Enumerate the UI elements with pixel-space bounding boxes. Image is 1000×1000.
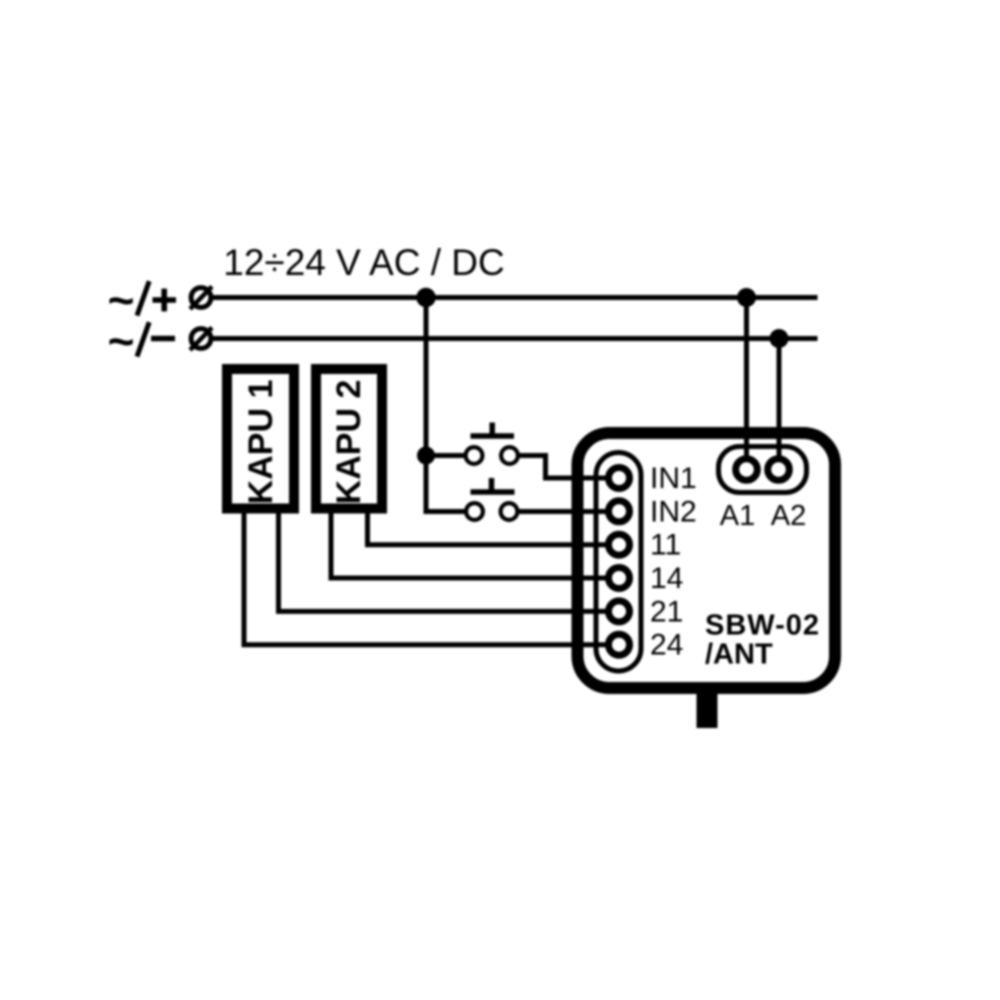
terminal IN1 xyxy=(609,468,630,489)
svg-text:A2: A2 xyxy=(771,500,806,532)
svg-text:~: ~ xyxy=(108,315,135,367)
wire A1 to plus line xyxy=(744,298,749,470)
terminal A2 xyxy=(768,459,790,481)
svg-text:IN2: IN2 xyxy=(650,495,697,528)
svg-text:KAPU 2: KAPU 2 xyxy=(330,380,368,505)
wire button1 right to IN1 xyxy=(520,456,613,479)
junction dot on plus line at buttons branch xyxy=(416,288,435,307)
terminal strip pill xyxy=(596,453,641,672)
wire supply line minus xyxy=(213,336,818,341)
pushbutton S1 xyxy=(466,423,518,464)
svg-text:11: 11 xyxy=(650,529,681,562)
terminal 21 xyxy=(609,601,630,622)
terminal symbol bottom (circle with slash) xyxy=(190,328,212,351)
junction dot on minus line at A2 branch xyxy=(770,329,789,348)
svg-text:24: 24 xyxy=(650,629,683,662)
junction dot at buttons branch split xyxy=(417,447,435,465)
wire KAPU1 right to terminal 21 xyxy=(279,513,613,611)
antenna stub xyxy=(697,688,718,728)
terminal IN2 xyxy=(609,501,630,522)
svg-text:SBW-02: SBW-02 xyxy=(705,610,820,642)
wire from plus line down to buttons xyxy=(426,298,465,512)
wire KAPU2 right to terminal 11 xyxy=(368,513,613,545)
wire supply line plus xyxy=(213,295,818,300)
KAPU 1 box xyxy=(227,369,294,509)
terminal A1 xyxy=(736,459,758,481)
label ~/− xyxy=(108,315,175,367)
svg-text:21: 21 xyxy=(650,595,683,628)
wire junction to button1 left xyxy=(426,453,464,458)
svg-text:A1: A1 xyxy=(720,500,755,532)
svg-text:/ANT: /ANT xyxy=(705,639,773,671)
wire KAPU2 left to terminal 14 xyxy=(331,513,612,578)
label ~/+ xyxy=(108,274,176,326)
wire A2 to minus line xyxy=(777,339,782,470)
wire KAPU1 left to terminal 24 xyxy=(244,513,612,645)
KAPU 2 box xyxy=(316,369,382,509)
svg-text:KAPU 1: KAPU 1 xyxy=(242,380,280,505)
device SBW-02 outline xyxy=(578,433,836,688)
junction dot on plus line at A1 branch xyxy=(737,288,756,307)
wire button2 right to IN2 xyxy=(519,509,612,514)
svg-text:IN1: IN1 xyxy=(650,462,697,495)
pushbutton S2 xyxy=(466,478,517,520)
terminal 11 xyxy=(609,534,630,555)
svg-text:12÷24 V AC / DC: 12÷24 V AC / DC xyxy=(223,242,505,283)
terminal symbol top (circle with slash) xyxy=(190,287,212,310)
terminal 14 xyxy=(609,568,630,589)
A1 A2 terminal pill xyxy=(719,447,807,493)
svg-text:14: 14 xyxy=(650,562,683,595)
terminal 24 xyxy=(609,634,630,655)
